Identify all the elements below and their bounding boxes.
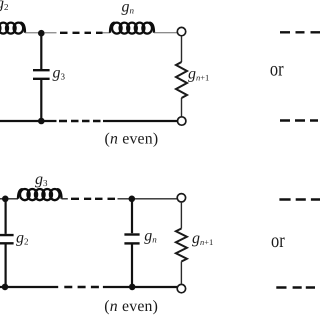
bottom rail left segment (top circuit) [0,120,57,122]
node E junction dot [2,284,9,291]
wire coil g3 to dashed break [62,198,68,200]
wire T1 to resistor [181,36,183,62]
dashed wire segment (bottom rail, top circuit) [59,120,101,122]
wire resistor to terminal T2 [181,98,183,117]
wire capacitor gn to bottom rail [131,243,133,287]
resistor g_{n+1} (top circuit) [176,62,187,98]
terminal T1 (open circle, top right) [177,27,185,35]
inductor gn [110,23,154,34]
svg-text:or: or [270,59,284,81]
wire T3 to resistor (bottom circuit) [180,202,182,229]
resistor g_{n+1} (bottom circuit) [176,229,187,262]
wire dashed break to node D [118,198,178,200]
svg-text:g2: g2 [0,0,9,12]
dashed wire segment (top rail, top circuit) [60,32,103,34]
svg-text:gn+1: gn+1 [192,230,213,247]
svg-text:or: or [271,230,285,252]
dashed stub top-right lower [280,119,318,121]
wire dashed break to coil gn [103,32,111,34]
wire node A to capacitor g3 [40,33,42,69]
dashed wire segment (bottom rail, bottom circuit) [64,286,99,288]
wire node D to capacitor gn [131,199,133,233]
node C junction dot [2,196,9,203]
capacitor g2 (cropped at left edge) [0,235,14,243]
dashed wire segment (top rail, bottom circuit) [71,198,115,200]
wire coil gn to terminal T1 [154,32,177,34]
dashed stub top-right upper [280,31,320,33]
dashed stub bottom-right upper [279,198,320,200]
svg-text:(n even): (n even) [105,130,159,147]
wire coil g2 to node A [25,32,38,34]
inductor g3 (bottom circuit) [18,189,62,200]
terminal T2 (open circle, bottom right) [178,117,186,125]
svg-text:gn+1: gn+1 [188,66,209,83]
wire node C to coil g3 [8,198,18,200]
bottom rail right segment to T2 [103,120,177,122]
top rail left stub (bottom circuit) [0,198,3,200]
wire node A to dashed break [44,32,56,34]
node B junction dot (bottom rail) [38,118,45,125]
bottom rail left segment (bottom circuit) [0,286,58,288]
wire node C to capacitor g2 [4,199,6,234]
svg-text:gn: gn [122,0,135,16]
svg-text:g3: g3 [35,171,48,188]
wire resistor to T4 [180,262,182,285]
node F junction dot [129,284,136,291]
svg-text:(n even): (n even) [104,298,158,315]
capacitor g3 [33,70,50,79]
wire capacitor g2 to bottom rail [4,245,6,288]
capacitor gn [124,235,139,244]
terminal T4 (open circle, bottom right, bottom circuit) [177,284,185,292]
bottom rail right segment to T4 [103,286,177,288]
terminal T3 (open circle, top right, bottom circuit) [177,194,185,202]
svg-text:g2: g2 [16,230,29,247]
svg-text:gn: gn [144,228,157,245]
node D junction dot [129,196,136,203]
dashed stub bottom-right lower [276,286,315,288]
wire capacitor g3 to bottom rail [40,80,42,121]
node A junction dot [38,30,45,37]
inductor g2 (cropped at left edge) [0,23,25,34]
svg-text:g3: g3 [53,65,66,82]
